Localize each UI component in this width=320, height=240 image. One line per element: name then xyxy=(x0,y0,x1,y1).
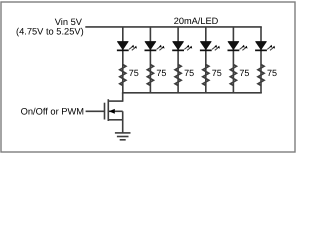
svg-text:(4.75V to 5.25V): (4.75V to 5.25V) xyxy=(16,26,84,36)
svg-text:Vin 5V: Vin 5V xyxy=(55,17,83,27)
svg-text:On/Off or PWM: On/Off or PWM xyxy=(21,106,84,116)
svg-text:20mA/LED: 20mA/LED xyxy=(174,16,219,26)
